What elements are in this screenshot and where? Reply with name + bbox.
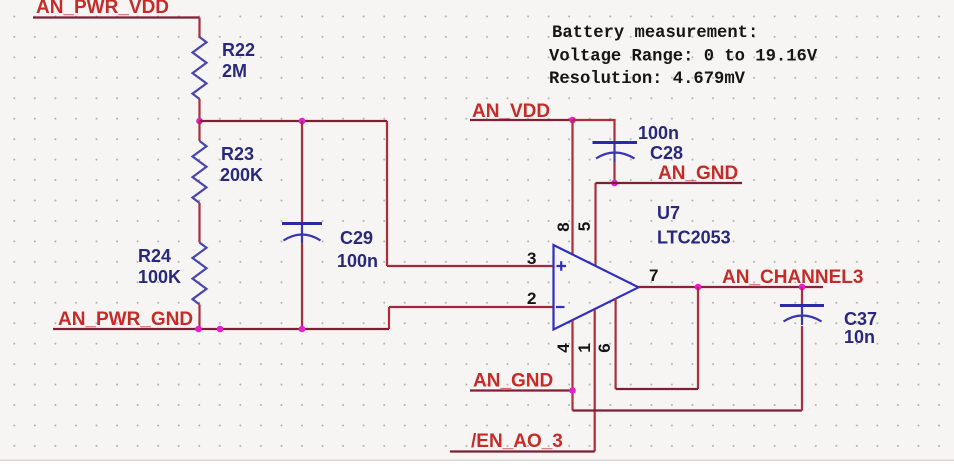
svg-text:Resolution: 4.679mV: Resolution: 4.679mV bbox=[549, 70, 746, 89]
svg-text:7: 7 bbox=[649, 266, 658, 285]
resistor R23 bbox=[193, 141, 264, 203]
svg-text:6: 6 bbox=[595, 343, 614, 352]
wire C37 bottom stub bbox=[801, 326, 803, 411]
wire AN_VDD horizontal bbox=[470, 119, 573, 121]
wire pin 4 vertical bbox=[571, 321, 573, 411]
wire pin 5 vertical bbox=[594, 183, 596, 266]
wire AN_GND top horizontal bbox=[596, 182, 743, 184]
junction AN_GND pin4 bbox=[569, 387, 576, 394]
wire R22 to node A bbox=[198, 99, 200, 121]
svg-text:AN_PWR_GND: AN_PWR_GND bbox=[58, 309, 193, 330]
resistor R24 bbox=[138, 243, 207, 305]
wire AN_GND bottom horizontal bbox=[470, 389, 573, 391]
wire pin 1 vertical bbox=[594, 310, 596, 452]
svg-text:C28: C28 bbox=[650, 143, 683, 163]
svg-text:Voltage Range: 0 to 19.16V: Voltage Range: 0 to 19.16V bbox=[549, 48, 818, 67]
junction R24 bottom bbox=[195, 326, 202, 333]
node A junction bbox=[196, 118, 203, 125]
svg-text:R24: R24 bbox=[138, 246, 171, 266]
wire pin 3 horizontal bbox=[387, 265, 554, 267]
wire pin 2 horizontal bbox=[389, 306, 554, 308]
svg-text:AN_VDD: AN_VDD bbox=[472, 101, 550, 122]
svg-text:U7: U7 bbox=[657, 203, 680, 223]
capacitor C29 bbox=[282, 224, 378, 272]
svg-text:C29: C29 bbox=[340, 228, 373, 248]
junction C29 bottom bbox=[299, 326, 306, 333]
wire node A horizontal bbox=[200, 120, 388, 122]
junction output feedback bbox=[695, 284, 702, 291]
svg-text:100K: 100K bbox=[138, 267, 181, 287]
wire C37 top stub bbox=[801, 287, 803, 306]
svg-text:100n: 100n bbox=[638, 123, 679, 143]
wire to C28 bbox=[573, 120, 615, 143]
wire AN_PWR_VDD horizontal bbox=[33, 16, 200, 18]
note battery measurement bbox=[549, 24, 818, 89]
junction at C29 top bbox=[299, 118, 306, 125]
junction C37 top bbox=[799, 284, 806, 291]
svg-text:1: 1 bbox=[575, 343, 594, 352]
svg-text:2: 2 bbox=[527, 289, 536, 308]
svg-text:10n: 10n bbox=[844, 327, 875, 347]
wire AN_PWR_GND horizontal bbox=[53, 328, 389, 330]
svg-text:/EN_AO_3: /EN_AO_3 bbox=[471, 431, 563, 452]
bottom frame line bbox=[0, 460, 954, 462]
junction label anchor bbox=[217, 326, 224, 333]
svg-text:5: 5 bbox=[575, 222, 594, 231]
wire C29 bottom stub bbox=[301, 243, 303, 329]
wire R24 to AN_PWR_GND bbox=[198, 305, 200, 330]
svg-text:3: 3 bbox=[527, 249, 536, 268]
wire vertical to pin3 bbox=[386, 121, 388, 266]
svg-text:8: 8 bbox=[554, 222, 573, 231]
svg-text:4: 4 bbox=[554, 343, 573, 353]
junction AN_VDD bbox=[569, 117, 576, 124]
wire feedback vertical bbox=[697, 287, 699, 389]
svg-text:R23: R23 bbox=[221, 144, 254, 164]
wire C37 ground run bbox=[573, 409, 803, 411]
wire vertical to R22 bbox=[198, 18, 200, 39]
svg-text:LTC2053: LTC2053 bbox=[657, 228, 731, 248]
wire C29 top stub bbox=[301, 121, 303, 224]
svg-text:AN_GND: AN_GND bbox=[658, 163, 738, 184]
wire pin 8 vertical bbox=[571, 120, 573, 255]
wire R23 to R24 bbox=[198, 203, 200, 243]
wire output pin 7 bbox=[639, 286, 824, 288]
svg-text:2M: 2M bbox=[222, 61, 247, 81]
svg-text:R22: R22 bbox=[222, 40, 255, 60]
svg-text:AN_PWR_VDD: AN_PWR_VDD bbox=[36, 0, 169, 18]
wire feedback horizontal bbox=[616, 388, 698, 390]
wire pin 6 vertical bbox=[614, 299, 616, 390]
wire node A to R23 bbox=[198, 121, 200, 141]
junction C28 bottom bbox=[611, 180, 618, 187]
wire /EN_AO_3 horizontal bbox=[450, 450, 595, 452]
svg-text:100n: 100n bbox=[337, 251, 378, 271]
wire up to pin 2 bbox=[388, 307, 390, 329]
wire C28 bottom stub bbox=[613, 162, 615, 183]
op-amp U7 bbox=[554, 203, 731, 330]
svg-text:AN_CHANNEL3: AN_CHANNEL3 bbox=[722, 267, 863, 288]
svg-text:Battery measurement:: Battery measurement: bbox=[552, 24, 758, 43]
capacitor C37 bbox=[780, 306, 877, 348]
capacitor C28 bbox=[593, 123, 684, 163]
svg-text:C37: C37 bbox=[844, 309, 877, 329]
svg-text:AN_GND: AN_GND bbox=[473, 371, 553, 392]
resistor R22 bbox=[193, 37, 256, 99]
svg-text:200K: 200K bbox=[220, 165, 263, 185]
